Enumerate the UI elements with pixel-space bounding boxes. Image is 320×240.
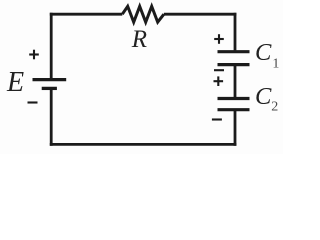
capacitor C2 plates [218, 99, 250, 110]
resistor R1 zigzag [122, 6, 164, 22]
minus sign at C1 bottom plate [214, 69, 224, 71]
svg-text:C: C [255, 39, 272, 66]
svg-text:2: 2 [271, 100, 278, 115]
svg-text:E: E [6, 67, 24, 98]
minus sign at C2 bottom plate [212, 118, 222, 120]
wire top-left segment [50, 13, 123, 16]
wire between C1 and C2 [234, 66, 237, 97]
svg-text:C: C [255, 83, 272, 110]
wire left upper (battery positive lead) [50, 13, 53, 78]
plus sign at C2 top plate [214, 76, 224, 86]
minus sign at battery negative terminal [28, 101, 38, 103]
label C2 (capacitor 2) [255, 83, 278, 115]
svg-text:R: R [131, 26, 147, 53]
capacitor C1 plates [218, 52, 250, 65]
wire top-right segment [164, 13, 237, 16]
wire right lower (C2 bottom lead) [234, 111, 237, 146]
label C1 (capacitor 1) [255, 39, 279, 71]
plus sign at C1 top plate [214, 34, 224, 44]
wire bottom segment [50, 143, 237, 146]
battery E plates [33, 80, 67, 89]
wire left lower (battery negative lead) [50, 90, 53, 146]
svg-text:1: 1 [272, 56, 279, 71]
wire right upper (C1 top lead) [234, 13, 237, 51]
plus sign at battery positive terminal [29, 50, 39, 60]
